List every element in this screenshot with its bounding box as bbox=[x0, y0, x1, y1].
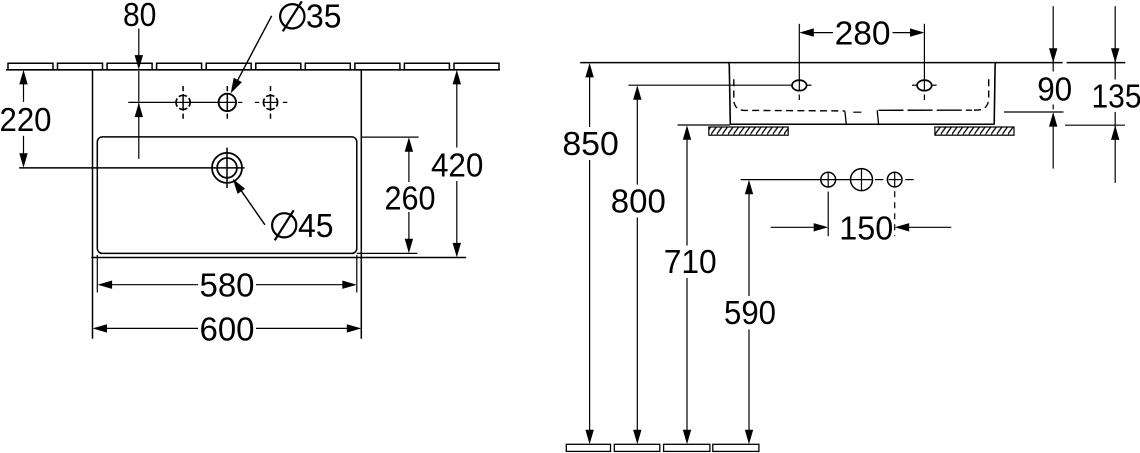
svg-text:45: 45 bbox=[298, 207, 334, 244]
svg-text:800: 800 bbox=[611, 183, 666, 220]
svg-text:850: 850 bbox=[562, 125, 619, 162]
svg-text:280: 280 bbox=[835, 15, 891, 52]
svg-text:135: 135 bbox=[1092, 78, 1140, 115]
svg-text:150: 150 bbox=[839, 210, 893, 247]
svg-text:90: 90 bbox=[1037, 71, 1072, 108]
svg-text:590: 590 bbox=[724, 294, 776, 331]
svg-text:420: 420 bbox=[431, 146, 484, 183]
svg-text:35: 35 bbox=[306, 0, 342, 35]
svg-text:80: 80 bbox=[123, 0, 157, 33]
svg-text:710: 710 bbox=[664, 243, 717, 280]
svg-text:260: 260 bbox=[385, 179, 436, 216]
svg-text:220: 220 bbox=[0, 101, 52, 138]
svg-text:600: 600 bbox=[200, 310, 255, 347]
svg-text:580: 580 bbox=[200, 267, 255, 304]
